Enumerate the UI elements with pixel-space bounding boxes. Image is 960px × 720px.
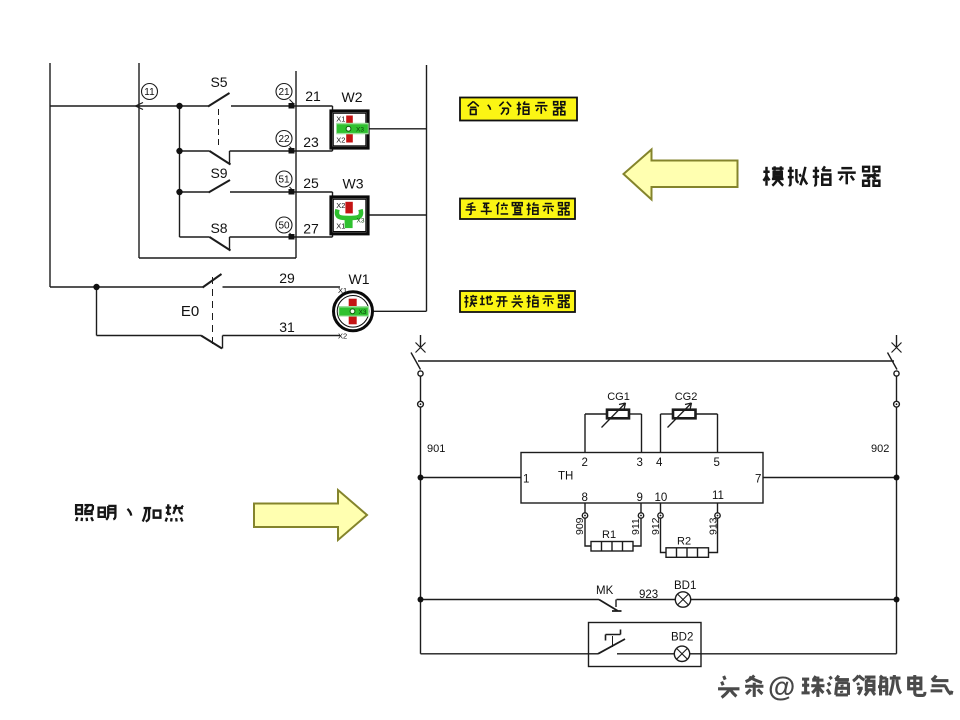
resistor CG1 body (607, 410, 629, 419)
dot left circle lower (420, 403, 422, 405)
terminal circle left upper (418, 371, 423, 376)
wire row 31 riser (222, 336, 224, 349)
switch BD2 actuator link (612, 636, 614, 647)
svg-text:5: 5 (714, 457, 720, 469)
svg-text:S5: S5 (210, 74, 227, 90)
leader tick row21 (290, 100, 294, 104)
wire pin8 down (584, 503, 586, 513)
callout box 3 (460, 291, 575, 312)
svg-text:X1: X1 (338, 286, 347, 295)
switch S5 blade NO (208, 93, 230, 107)
svg-text:CG2: CG2 (675, 391, 698, 403)
resistor CG2 arrow (668, 403, 692, 428)
junction MK left (418, 597, 424, 603)
wire left drop 1 (420, 376, 422, 402)
wire left drop 2 (420, 407, 422, 654)
svg-text:BD2: BD2 (671, 632, 693, 644)
svg-text:21: 21 (278, 87, 290, 98)
svg-text:R1: R1 (602, 529, 616, 541)
svg-text:4: 4 (656, 457, 663, 469)
switch S9 blade NO (209, 180, 231, 193)
callout box 1 (460, 98, 577, 121)
wire bottom link row (139, 257, 296, 259)
wire row 21 right (231, 105, 333, 107)
wire rise to W2 bottom (332, 147, 334, 151)
leader tick row25 (290, 187, 294, 191)
wire pin11 down (717, 503, 719, 513)
wire CG2 left (661, 413, 674, 415)
wire row 27 riser (229, 237, 231, 251)
svg-text:W1: W1 (349, 271, 370, 287)
switch BD2 blade (598, 639, 625, 654)
wire to BD2 box left (421, 653, 589, 655)
wire R1 right (633, 518, 641, 546)
svg-text:912: 912 (650, 517, 662, 535)
wire pin4 up (660, 414, 662, 453)
wire W1 output (373, 310, 427, 312)
junction row23 (176, 148, 182, 154)
wire pin7 (763, 477, 897, 479)
wire row 23 riser (229, 151, 231, 165)
wire BD2 middle (617, 653, 674, 655)
arrow mark at bus row21 (136, 103, 144, 110)
wire pin10 down (660, 503, 662, 513)
resistor R2 body (666, 548, 709, 558)
svg-text:X3: X3 (359, 309, 367, 316)
mech link S5 dashed (218, 109, 220, 149)
terminal circle right lower (894, 401, 900, 407)
wire right drop 1 (896, 376, 898, 402)
dot right circle lower (896, 403, 898, 405)
label simulated indicator (763, 166, 879, 185)
mech link E0 dashed (212, 277, 214, 347)
svg-text:X2: X2 (336, 136, 345, 145)
svg-text:@: @ (768, 671, 795, 702)
svg-text:2: 2 (582, 457, 588, 469)
wire pin5 up (717, 414, 719, 453)
resistor CG2 body (673, 410, 696, 419)
BD2 enclosure box (589, 623, 702, 667)
callout box 2 (460, 199, 575, 220)
lamp BD2 (674, 646, 689, 661)
node circle 22 (276, 131, 292, 147)
wire row 23 right (230, 150, 333, 152)
switch lower-right X mark (892, 343, 902, 353)
big arrow left (624, 150, 738, 200)
svg-text:W3: W3 (343, 176, 364, 192)
watermark (718, 675, 952, 697)
svg-text:10: 10 (655, 492, 668, 504)
svg-text:11: 11 (712, 490, 724, 502)
junction MK right (894, 597, 900, 603)
svg-text:X3: X3 (357, 218, 365, 225)
svg-text:901: 901 (427, 443, 445, 455)
svg-text:50: 50 (278, 221, 290, 232)
switch MK blade (599, 600, 622, 612)
svg-text:9: 9 (637, 492, 643, 504)
terminal circle 909 (582, 513, 587, 518)
wire row 23 left (180, 150, 210, 152)
svg-text:913: 913 (708, 517, 720, 535)
svg-text:27: 27 (303, 221, 319, 237)
junction row21 (176, 103, 182, 109)
terminal circle 911 (638, 513, 643, 518)
junction row25 (176, 189, 182, 195)
switch E0 blade NO (203, 274, 222, 288)
wire R2 right (709, 518, 718, 552)
wire branch vertical (179, 106, 181, 237)
terminal square row21 (289, 103, 295, 109)
svg-text:R2: R2 (677, 536, 691, 548)
wire to BD2 box right (701, 653, 897, 655)
wire row 27 left (180, 236, 210, 238)
terminal square row27 (289, 234, 295, 240)
switch lower-right stub (896, 335, 898, 347)
svg-text:31: 31 (279, 319, 295, 335)
big arrow right (254, 490, 367, 540)
svg-text:X1: X1 (336, 222, 345, 231)
resistor R1 body (591, 542, 633, 552)
indicator W2 (331, 111, 369, 148)
svg-text:11: 11 (144, 87, 155, 98)
resistor R1 dividers (602, 542, 623, 552)
switch lower-left blade (411, 353, 421, 370)
svg-text:22: 22 (278, 134, 290, 145)
svg-text:1: 1 (523, 474, 529, 486)
terminal circle left lower (418, 401, 424, 407)
svg-text:21: 21 (305, 88, 321, 104)
svg-text:902: 902 (871, 443, 889, 455)
wire 912 (661, 518, 667, 552)
svg-text:BD1: BD1 (674, 580, 696, 592)
svg-text:X3: X3 (356, 127, 364, 134)
svg-text:E0: E0 (181, 303, 199, 320)
terminal square row25 (289, 189, 295, 195)
terminal circle 912 (658, 513, 663, 518)
resistor CG1 arrow (602, 403, 626, 428)
wire pin1 (421, 477, 522, 479)
indicator W3 (331, 197, 368, 234)
wire W2 output (370, 128, 427, 130)
wire pin2 up (584, 414, 586, 453)
wire BD1 right (691, 599, 897, 601)
wire row 25 left (180, 191, 209, 193)
wire W3 output (369, 214, 427, 216)
wire drop to W2 top (332, 106, 334, 111)
lamp BD1 (675, 592, 690, 607)
wire E0 lower branch vertical (96, 287, 98, 336)
junction pin1 (418, 475, 424, 481)
switch S5 NC blade (210, 151, 231, 165)
leader tick row27 (290, 233, 294, 237)
terminal circle right upper (894, 371, 899, 376)
wire row 27 right (230, 236, 333, 238)
terminal square row23 (289, 148, 295, 154)
wire second bus vertical (138, 63, 140, 258)
wire rise to W3 bottom (332, 233, 334, 237)
svg-text:911: 911 (630, 518, 642, 535)
switch S8 NC blade (210, 237, 231, 251)
wire row 31 left (97, 335, 202, 337)
wire row 31 right (223, 335, 341, 337)
leader tick row23 (290, 147, 294, 151)
wire drop to W3 top (332, 192, 334, 197)
switch MK fixed tick (615, 600, 617, 608)
svg-text:29: 29 (279, 270, 295, 286)
wire CG1 left (585, 413, 607, 415)
switch E0 NC blade (201, 336, 222, 349)
svg-text:923: 923 (639, 589, 658, 601)
svg-text:X1: X1 (336, 115, 345, 124)
indicator W1 (334, 286, 373, 341)
wire row 29 left (50, 286, 203, 288)
switch lower-right blade (888, 353, 898, 370)
wire CG1 right (629, 413, 642, 415)
wire MK row left (421, 599, 600, 601)
TH box (521, 453, 763, 504)
wire 909 (585, 518, 591, 546)
svg-text:TH: TH (558, 471, 573, 483)
wire row 29 right (223, 286, 341, 288)
svg-text:3: 3 (637, 457, 643, 469)
label lighting heating (76, 504, 183, 521)
wire pin3 up (641, 414, 643, 453)
wire BD2 inside right (690, 653, 701, 655)
junction pin7 (894, 475, 900, 481)
svg-text:MK: MK (596, 585, 614, 597)
svg-text:7: 7 (755, 474, 761, 486)
wire right drop 2 (896, 407, 898, 654)
terminal circle 913 (715, 513, 720, 518)
svg-text:W2: W2 (342, 89, 363, 105)
svg-text:25: 25 (303, 175, 319, 191)
wire pin9 down (640, 503, 642, 513)
node circle 51 (276, 171, 292, 187)
wire BD2 inside left (589, 653, 599, 655)
wire row 21 left (50, 105, 208, 107)
svg-text:23: 23 (303, 134, 319, 150)
switch lower-left X mark (416, 343, 426, 353)
svg-text:CG1: CG1 (607, 391, 630, 403)
wire left bus vertical (49, 63, 51, 287)
wire terminal strip vertical (295, 71, 297, 258)
wire MK to BD1 (617, 599, 676, 601)
wire row 25 right (230, 191, 333, 193)
node circle 21 (276, 84, 292, 100)
svg-text:909: 909 (574, 517, 586, 535)
junction row29 (93, 284, 99, 290)
svg-text:51: 51 (278, 175, 290, 186)
wire CG2 right (696, 413, 718, 415)
svg-text:X2: X2 (338, 332, 347, 341)
wire lower top rail (418, 360, 894, 362)
resistor R2 dividers (677, 548, 698, 558)
svg-text:X2: X2 (336, 201, 345, 210)
node circle 50 (276, 217, 292, 233)
svg-text:S9: S9 (210, 165, 227, 181)
switch lower-left stub (420, 335, 422, 347)
svg-text:S8: S8 (210, 220, 227, 236)
svg-text:8: 8 (582, 492, 588, 504)
wire right return vertical (426, 65, 428, 311)
node circle 11 (142, 84, 158, 100)
switch BD2 actuator (606, 630, 621, 641)
